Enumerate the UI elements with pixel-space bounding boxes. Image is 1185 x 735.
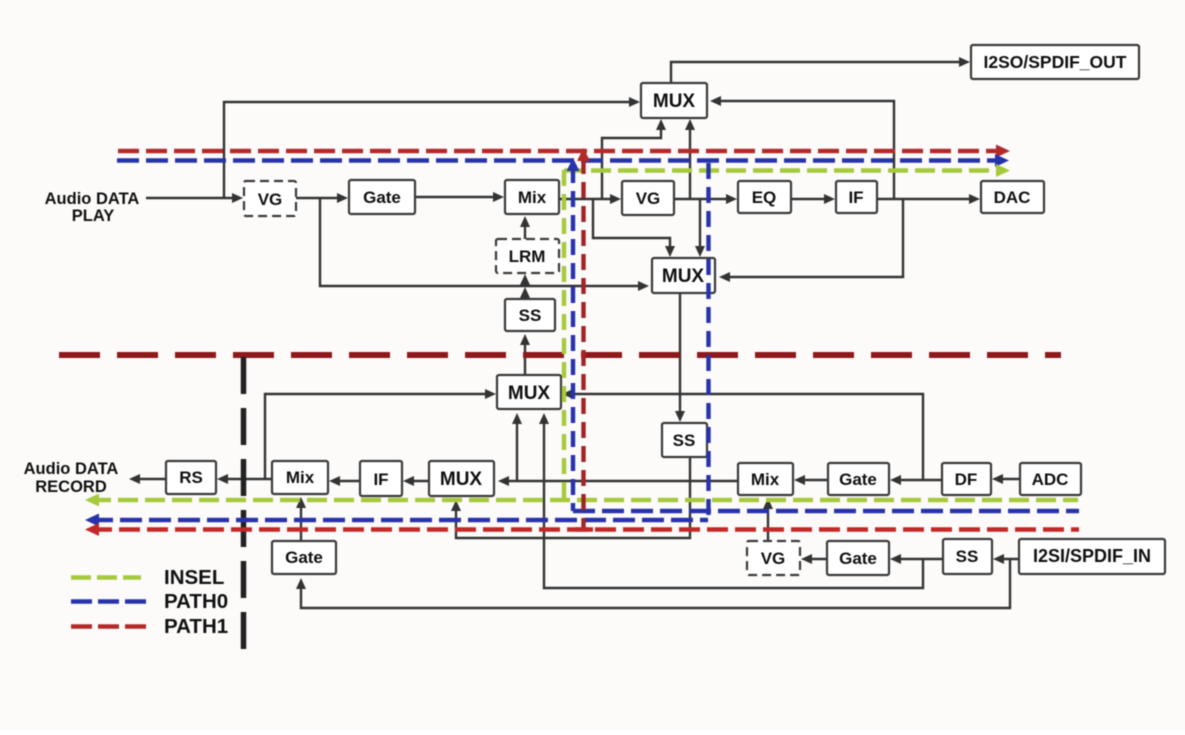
- PATH1 red top line: [118, 149, 1000, 153]
- svg-text:MUX: MUX: [508, 383, 551, 404]
- wire SS2 to MUX4 bottom: [456, 457, 690, 538]
- arrow into SS3 right: [993, 554, 1004, 564]
- block Gate input 2: [827, 541, 889, 575]
- PATH0 blue bottom-left line: [91, 518, 708, 522]
- arrow into LRM bottom: [520, 274, 530, 285]
- svg-text:LRM: LRM: [509, 247, 546, 266]
- arrow record output: [129, 474, 140, 484]
- wire to MUX1 bottom right: [689, 123, 691, 199]
- svg-text:INSEL: INSEL: [164, 566, 224, 589]
- arrow into EQ: [726, 194, 737, 204]
- arrow into I2SO: [959, 57, 970, 67]
- wire I2SI to SS3: [998, 558, 1019, 560]
- arrow into MUX2 left: [638, 281, 649, 291]
- PATH1 red top arrow: [996, 145, 1010, 158]
- svg-text:SS: SS: [673, 431, 696, 450]
- arrow into Gate1: [337, 193, 348, 203]
- svg-text:MUX: MUX: [440, 469, 483, 490]
- svg-text:IF: IF: [848, 188, 863, 207]
- dark red barrier dashed line: [59, 352, 1061, 358]
- PATH1 red bottom arrow: [85, 523, 99, 536]
- block Mix input: [738, 463, 793, 495]
- arrow into Mix1 bottom: [520, 216, 530, 227]
- wire up branch to MUX1 bottom left: [602, 123, 661, 199]
- arrow into MUX3 right: [562, 389, 573, 399]
- arrow into MUX1 left: [629, 97, 640, 107]
- black dashed vertical barrier: [241, 357, 247, 652]
- svg-text:PATH1: PATH1: [164, 615, 228, 638]
- arrow into MUX4 right: [498, 476, 509, 486]
- arrow into MUX1 right: [710, 96, 721, 106]
- wire record tap to MUX3 bottom: [516, 418, 518, 481]
- svg-text:VG: VG: [636, 189, 661, 208]
- wire up to MUX1 right: [715, 101, 894, 199]
- svg-text:Gate: Gate: [839, 549, 877, 568]
- wire Gate to Mix: [415, 196, 499, 198]
- block VG play input (dashed): [244, 181, 296, 216]
- svg-text:RS: RS: [179, 468, 203, 487]
- svg-text:EQ: EQ: [752, 188, 777, 207]
- arrow into IF2 right: [403, 476, 414, 486]
- arrow into MUX4 bottom: [451, 500, 461, 511]
- block SS play: [505, 299, 555, 331]
- PATH0 blue top arrow: [995, 154, 1009, 167]
- arrow into VG1: [232, 193, 243, 203]
- arrow into crossing wire: [520, 287, 530, 298]
- INSEL green vertical: [562, 170, 566, 500]
- svg-text:I2SO/SPDIF_OUT: I2SO/SPDIF_OUT: [984, 52, 1127, 72]
- svg-text:Mix: Mix: [518, 188, 547, 207]
- arrow into Mix3 bottom: [296, 497, 306, 508]
- wire LRM to Mix: [524, 221, 526, 239]
- wire down to MUX2 right: [724, 199, 903, 277]
- block VG play 2: [622, 181, 674, 215]
- arrow into MUX2 top left: [665, 246, 675, 257]
- block EQ: [738, 181, 791, 213]
- arrow into MUX2 right: [719, 272, 730, 282]
- arrow into VG3 right: [801, 554, 812, 564]
- block ADC: [1020, 463, 1081, 495]
- svg-text:Mix: Mix: [286, 468, 315, 487]
- PATH0 blue vertical right: [706, 163, 710, 520]
- wire SS to crossing: [524, 292, 526, 299]
- wire IF to DAC: [877, 198, 975, 200]
- wire MUX2 to SS: [679, 293, 681, 417]
- arrow into MUX1 bottom left: [656, 119, 666, 130]
- svg-text:DAC: DAC: [994, 188, 1031, 207]
- wire VG to Gate: [296, 197, 343, 199]
- PATH0 blue bottom-left arrow: [85, 514, 99, 527]
- arrow into Mix1: [493, 192, 504, 202]
- PATH1 red vertical: [581, 158, 585, 529]
- INSEL green bottom line: [91, 498, 1078, 502]
- PATH1 red vertical arrow: [577, 148, 590, 161]
- svg-text:Gate: Gate: [839, 470, 877, 489]
- wire crossing to LRM: [524, 279, 526, 285]
- arrow into Gate2 right: [890, 554, 901, 564]
- wire MUX4 to IF: [408, 480, 429, 482]
- svg-text:Gate: Gate: [285, 548, 323, 567]
- arrow into Gate3 right: [890, 475, 901, 485]
- wire DF tap to MUX3 right: [567, 394, 923, 481]
- arrow into MUX3 bottom from record tap: [512, 413, 522, 424]
- svg-text:Audio DATA: Audio DATA: [24, 460, 119, 478]
- wire MUX1 to I2SO: [671, 62, 965, 83]
- wire SS3 to Gate2: [895, 558, 943, 560]
- svg-text:VG: VG: [761, 549, 786, 568]
- arrow into MUX1 bottom right: [685, 119, 695, 130]
- wire branch down to MUX2 left: [320, 198, 644, 286]
- legend PATH0 dashes: [71, 599, 146, 604]
- PATH0 blue vertical left arrow: [567, 158, 580, 171]
- block DF: [942, 463, 991, 495]
- wire Gate to Mix2: [799, 479, 828, 481]
- wire VG3 to Mix2: [767, 503, 769, 541]
- wire Mix to VG: [559, 198, 616, 200]
- INSEL green top line: [564, 168, 1000, 172]
- wire VG to EQ: [674, 198, 732, 200]
- arrow into MUX2 top right: [695, 246, 705, 257]
- wire ADC to DF: [997, 478, 1020, 480]
- arrow into VG2: [610, 194, 621, 204]
- block Mix play: [505, 180, 559, 214]
- wire SS3 tap to MUX3 bottom: [544, 418, 923, 588]
- svg-text:ADC: ADC: [1032, 470, 1069, 489]
- legend PATH1 dashes: [71, 624, 146, 629]
- wire tap up to MUX1 left: [224, 102, 634, 198]
- block Gate record: [272, 541, 336, 574]
- arrow into Mix2 right: [794, 475, 805, 485]
- block DAC: [981, 181, 1044, 213]
- arrow into IF: [824, 194, 835, 204]
- block Gate input: [828, 463, 889, 495]
- PATH1 red vertical foot serif: [575, 527, 593, 531]
- block SS middle: [662, 423, 707, 457]
- wire tap up to MUX3 left: [265, 394, 491, 479]
- PATH1 red bottom line: [91, 527, 1079, 531]
- wire EQ to IF: [791, 198, 830, 200]
- wire MUX3 to SS: [524, 340, 526, 375]
- svg-text:RECORD: RECORD: [35, 478, 107, 496]
- INSEL green bottom arrow: [85, 494, 99, 507]
- wire I2SI tap to record Gate: [301, 559, 1010, 608]
- wire RS to output: [134, 478, 166, 480]
- arrow into Mix2 bottom: [763, 498, 773, 509]
- PATH0 blue top line: [117, 158, 999, 162]
- arrow into MUX3 left: [485, 389, 496, 399]
- block MUX record loop: [497, 375, 561, 409]
- arrow into MUX3 bottom from SS3 tap: [539, 413, 549, 424]
- arrow into SS1 bottom: [520, 334, 530, 345]
- arrow into SS2 top: [675, 411, 685, 422]
- block Gate play: [349, 180, 415, 214]
- block LRM (dashed): [496, 239, 559, 273]
- svg-text:PLAY: PLAY: [72, 207, 115, 225]
- PATH0 blue vertical left: [571, 167, 575, 511]
- INSEL green top arrow: [996, 164, 1010, 177]
- svg-text:I2SI/SPDIF_IN: I2SI/SPDIF_IN: [1033, 546, 1151, 566]
- wire Gate2 to VG3: [806, 558, 827, 560]
- arrow into record Gate bottom: [296, 578, 306, 589]
- block Mix record: [272, 461, 328, 494]
- block MUX play 2: [652, 258, 715, 293]
- arrow into DAC: [969, 194, 980, 204]
- arrow into Mix3 right: [329, 476, 340, 486]
- wire record Gate to Mix3: [300, 503, 302, 541]
- svg-text:MUX: MUX: [653, 91, 696, 112]
- block IF play: [836, 181, 877, 213]
- BOXES: [166, 45, 1165, 575]
- svg-text:VG: VG: [258, 190, 283, 209]
- wire Mix to RS: [222, 478, 272, 480]
- svg-text:Audio DATA: Audio DATA: [45, 190, 140, 208]
- ARROWHEADS black: [129, 57, 1004, 589]
- wire to MUX2 top right: [699, 199, 701, 252]
- arrow into DF right: [992, 474, 1003, 484]
- svg-text:DF: DF: [955, 470, 978, 489]
- svg-text:Mix: Mix: [751, 470, 780, 489]
- wire down branch to MUX2 top left: [593, 199, 670, 252]
- block MUX top output mux: [641, 83, 707, 118]
- svg-text:PATH0: PATH0: [164, 590, 228, 613]
- TEXTS: [440, 91, 705, 490]
- wire play input to VG: [146, 197, 238, 199]
- svg-text:IF: IF: [373, 470, 388, 489]
- svg-text:Gate: Gate: [363, 188, 401, 207]
- block IF record: [360, 461, 402, 496]
- wire IF to Mix: [334, 480, 360, 482]
- block VG input (dashed): [747, 541, 800, 575]
- block I2SO/SPDIF_OUT: [971, 45, 1139, 79]
- wire Mix2 to MUX4: [503, 480, 738, 482]
- block MUX record: [429, 461, 494, 496]
- svg-text:SS: SS: [519, 306, 542, 325]
- svg-text:SS: SS: [956, 547, 979, 566]
- block RS: [166, 461, 216, 494]
- svg-text:MUX: MUX: [662, 266, 705, 287]
- block SS input: [943, 539, 992, 574]
- PATH0 blue bottom-right line: [573, 509, 1079, 513]
- legend INSEL dashes: [71, 575, 141, 580]
- arrow into RS right: [217, 474, 228, 484]
- block I2SI/SPDIF_IN: [1019, 539, 1165, 574]
- wire DF to Gate: [895, 479, 942, 481]
